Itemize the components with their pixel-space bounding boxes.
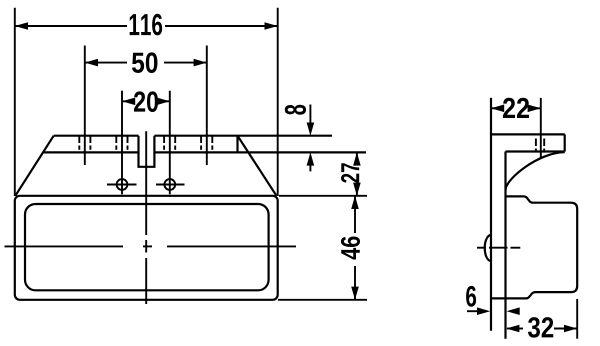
lamp body outer outline [15, 196, 278, 300]
bracket top edge [491, 133, 565, 135]
mounting plate right edge [504, 152, 506, 339]
lens bulge on plate [485, 235, 491, 261]
lens inner outline [25, 204, 269, 290]
body bottom extension line (right) [278, 299, 367, 301]
dim 116 extension lines [14, 8, 16, 196]
vertical centerline [145, 131, 147, 304]
dim 22 right extension line [540, 98, 542, 159]
dim 116 [15, 14, 278, 36]
dim 32 [506, 317, 577, 338]
right diagonal housing edge [238, 136, 277, 196]
screw right [156, 179, 185, 190]
dim 46 [341, 196, 360, 300]
bracket right end cap [564, 134, 566, 151]
mounting plate left edge [490, 98, 492, 331]
screw left [107, 179, 137, 190]
hidden hole dashes, hole at x=85 [79, 136, 90, 150]
dim 20 [122, 91, 170, 112]
dim 50 extension lines [84, 46, 86, 166]
flange right end cap [236, 136, 238, 153]
gusset curve [506, 152, 565, 190]
dim 6 label and arrows [466, 286, 520, 315]
hidden hole dashes, hole at x=170 [164, 136, 175, 150]
flange top edge + 8mm extension line (right of notch) [154, 135, 332, 137]
bracket hidden hole dashes [536, 139, 544, 153]
dim 8 (flange thickness) [285, 105, 314, 172]
dim 50 [85, 52, 207, 73]
body side profile [491, 196, 577, 298]
bracket bottom edge [506, 150, 565, 152]
left diagonal housing edge [15, 136, 53, 196]
hidden hole dashes, hole at x=207 [201, 136, 212, 150]
notch in flange [139, 136, 155, 167]
flange top edge (left of notch) [54, 135, 139, 137]
body top extension line (right) [279, 195, 367, 197]
body right edge extension line [576, 299, 578, 339]
hidden hole dashes, hole at x=122 [116, 136, 127, 150]
side centerline [477, 247, 520, 249]
flange bottom edge + extension line (right of notch) [154, 151, 366, 153]
dim 27 [341, 152, 361, 195]
dim 20 extension lines [121, 91, 123, 195]
horizontal centerline [5, 245, 297, 247]
dim 22 [491, 98, 541, 118]
flange bottom edge (left of notch) [43, 151, 138, 153]
